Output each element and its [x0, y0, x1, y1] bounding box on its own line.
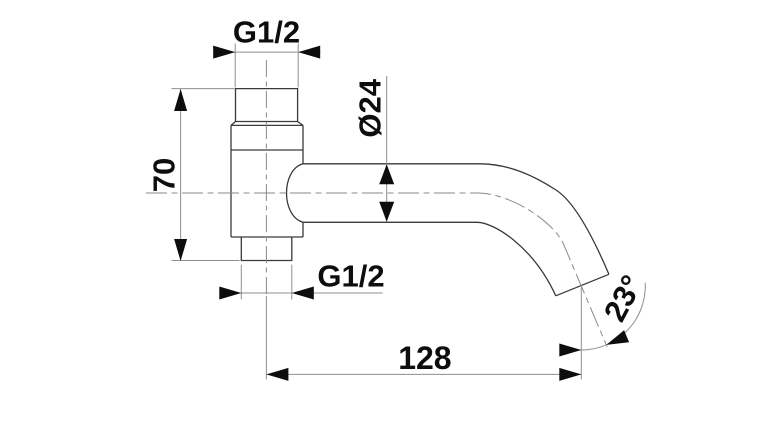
bottom pipe G1/2 [241, 237, 291, 261]
dim 128 line [266, 373, 581, 375]
fillet body to tube [287, 164, 304, 223]
collar below thread [231, 122, 303, 126]
arrow angle at vertical line [559, 344, 581, 357]
svg-text:128: 128 [398, 340, 451, 376]
dim G1/2 bottom line [219, 292, 383, 294]
part outline: wall spout body [231, 89, 609, 296]
dim 70 extension top [172, 88, 235, 90]
spout tube top edge [303, 164, 609, 274]
svg-text:23°: 23° [597, 269, 650, 327]
arrow dim70 up [174, 89, 187, 111]
arrow 128 left [266, 368, 288, 381]
arrow G1/2 bottom right [292, 287, 314, 300]
arrow D24 up [379, 164, 394, 184]
vertical fixture centerline [265, 60, 267, 296]
top thread section G1/2 [236, 89, 298, 122]
tube centerline with bend and 23deg extension [146, 193, 607, 347]
dim G1/2 bottom extensions [241, 265, 291, 300]
spout tube bottom edge [303, 222, 556, 295]
svg-text:Ø24: Ø24 [352, 78, 387, 137]
svg-text:G1/2: G1/2 [233, 15, 300, 50]
dim 128 / angle extension right [580, 288, 582, 380]
arrow angle at centerline [606, 330, 629, 345]
dim D24 leader line [386, 76, 388, 222]
dim G1/2 top line [214, 51, 321, 53]
svg-text:70: 70 [146, 158, 181, 192]
main body [231, 125, 303, 237]
dimension lines (gray) [172, 44, 646, 380]
arrow G1/2 top right [298, 46, 320, 59]
dim 128 extension left [265, 296, 267, 380]
centerlines [146, 60, 607, 347]
dim G1/2 top extensions [235, 44, 298, 88]
arrow G1/2 top left [213, 46, 235, 59]
arrow dim70 down [174, 239, 187, 261]
arrow G1/2 bottom left [219, 287, 241, 300]
angle 23 arc [577, 283, 645, 350]
dim 70 line [180, 89, 182, 261]
svg-text:G1/2: G1/2 [317, 259, 384, 294]
arrow 128 right [559, 368, 581, 381]
arrowheads (black) [174, 46, 629, 381]
arrow D24 down [379, 202, 394, 222]
body joint line [231, 149, 303, 151]
dim 70 extension bottom [172, 260, 240, 262]
spout mouth face [556, 274, 609, 296]
